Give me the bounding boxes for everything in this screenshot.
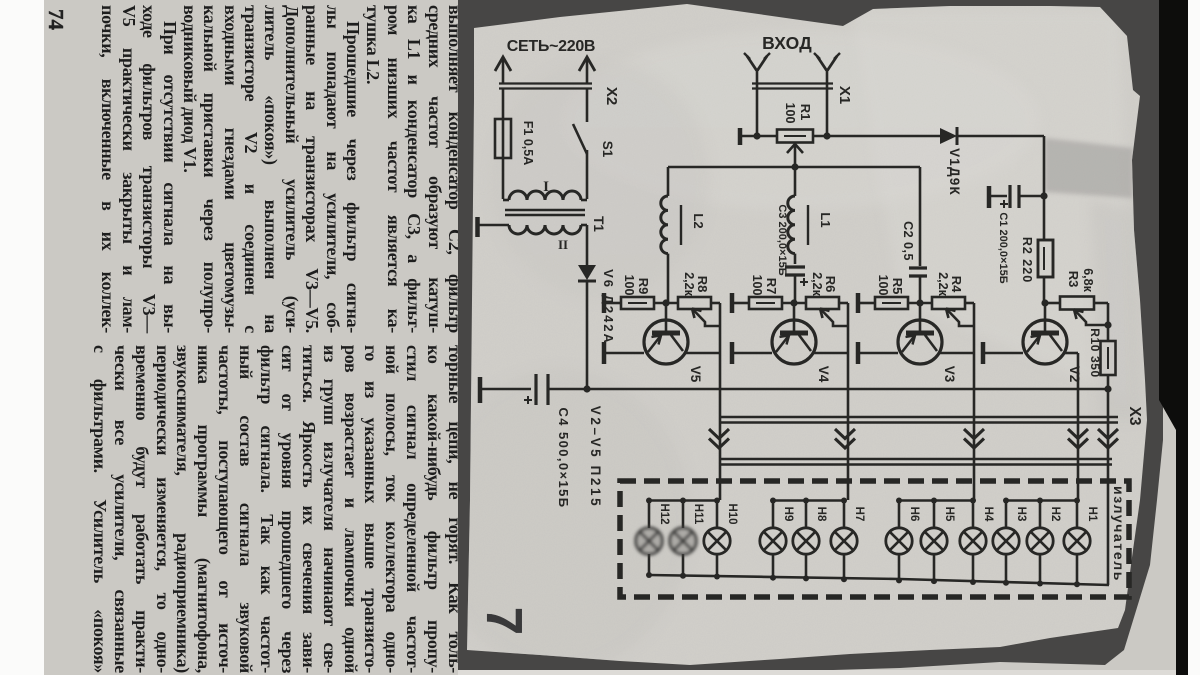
svg-text:R8: R8 xyxy=(695,276,710,293)
svg-text:С3 200,0×15Б: С3 200,0×15Б xyxy=(776,204,788,275)
svg-text:L2: L2 xyxy=(691,213,706,228)
svg-text:100: 100 xyxy=(876,275,890,296)
svg-text:100: 100 xyxy=(783,103,797,124)
svg-text:Т1: Т1 xyxy=(591,216,606,232)
svg-text:Н5: Н5 xyxy=(943,507,955,522)
svg-text:V2: V2 xyxy=(1067,366,1082,383)
svg-text:2,2к: 2,2к xyxy=(810,272,824,296)
svg-text:ВХОД: ВХОД xyxy=(762,33,812,53)
svg-text:R1: R1 xyxy=(798,104,813,121)
svg-text:Н1: Н1 xyxy=(1086,507,1098,522)
svg-text:V4: V4 xyxy=(816,366,831,383)
svg-text:R5: R5 xyxy=(890,278,905,295)
svg-text:L1: L1 xyxy=(818,212,833,227)
svg-text:Н2: Н2 xyxy=(1049,507,1061,522)
svg-text:Н3: Н3 xyxy=(1015,507,1027,522)
svg-text:R6: R6 xyxy=(823,276,838,293)
svg-text:Х3: Х3 xyxy=(1126,407,1143,426)
svg-text:V1Д9К: V1Д9К xyxy=(947,148,962,196)
svg-text:100: 100 xyxy=(622,275,636,296)
svg-text:Х2: Х2 xyxy=(603,87,620,105)
svg-text:СЕТЬ~220В: СЕТЬ~220В xyxy=(507,38,595,55)
svg-text:R10 350: R10 350 xyxy=(1088,328,1102,378)
svg-text:V5: V5 xyxy=(688,366,703,383)
svg-text:Н12: Н12 xyxy=(658,503,670,524)
svg-text:R3: R3 xyxy=(1066,271,1081,288)
svg-text:Н11: Н11 xyxy=(692,504,704,525)
svg-text:R9: R9 xyxy=(636,278,651,295)
svg-text:V2–V5 П215: V2–V5 П215 xyxy=(588,406,603,509)
svg-text:Н9: Н9 xyxy=(782,507,794,522)
svg-text:2,2к: 2,2к xyxy=(936,272,950,296)
svg-text:F1 0,5А: F1 0,5А xyxy=(521,121,535,165)
svg-text:R4: R4 xyxy=(949,276,964,293)
svg-text:излучатель: излучатель xyxy=(1111,486,1127,582)
svg-text:R7: R7 xyxy=(764,278,779,295)
svg-text:II: II xyxy=(558,237,568,252)
svg-text:С4 500,0×15Б: С4 500,0×15Б xyxy=(556,408,571,509)
svg-text:R2 220: R2 220 xyxy=(1020,237,1034,283)
svg-text:Н7: Н7 xyxy=(853,507,865,522)
svg-text:С2 0,5: С2 0,5 xyxy=(901,221,915,261)
svg-text:Н4: Н4 xyxy=(982,507,994,522)
svg-text:Н8: Н8 xyxy=(815,507,827,522)
svg-text:2,2к: 2,2к xyxy=(682,272,696,296)
svg-text:Н6: Н6 xyxy=(908,507,920,522)
svg-text:Х1: Х1 xyxy=(836,86,853,104)
svg-text:100: 100 xyxy=(750,275,764,296)
svg-text:S1: S1 xyxy=(600,141,615,158)
svg-text:V3: V3 xyxy=(942,366,957,383)
svg-text:Н10: Н10 xyxy=(726,503,738,524)
svg-text:6,8к: 6,8к xyxy=(1081,268,1095,292)
svg-text:С1 200,0×15Б: С1 200,0×15Б xyxy=(997,212,1009,283)
